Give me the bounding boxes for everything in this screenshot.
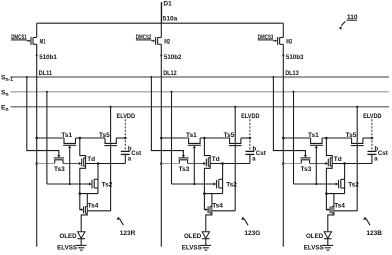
wire scan line Sn (1, 89, 389, 98)
junction DL/Ts1 (35, 137, 38, 140)
transistor Ts2 (341, 164, 360, 194)
transistor Ts5 (99, 132, 117, 146)
capacitor Cst (121, 146, 141, 163)
transistor Ts4 (326, 194, 345, 232)
label 110 with arrow (339, 14, 358, 30)
svg-text:Ts1: Ts1 (308, 132, 319, 139)
label DMCS3 (258, 34, 274, 41)
svg-text:Ts1: Ts1 (61, 132, 72, 139)
wire Ts5 gate from En (234, 106, 237, 146)
label DMCS1 (11, 34, 27, 41)
label 123G pixel with arrow (241, 217, 260, 237)
svg-text:Ts4: Ts4 (212, 203, 223, 210)
transistor Ts1 (308, 132, 323, 184)
svg-text:M3: M3 (286, 39, 292, 46)
svg-text:M1: M1 (40, 39, 46, 46)
wire Ts5 gate from En (109, 106, 112, 146)
svg-text:Ts2: Ts2 (348, 182, 359, 189)
transistor Ts2 (94, 164, 113, 194)
wire Ts1/Ts2 gates from Sn (171, 91, 217, 189)
wire Td/Ts2 source node (325, 192, 345, 195)
wire Ts3 gate from Sn-1 (150, 76, 185, 158)
junction DL/Ts1 (282, 137, 285, 140)
svg-text:M2: M2 (164, 39, 170, 46)
wire DL to Ts1 (161, 137, 188, 139)
svg-text:Ts3: Ts3 (179, 166, 190, 173)
diode OLED (184, 232, 210, 246)
svg-text:510b3: 510b3 (286, 54, 304, 61)
svg-text:510b1: 510b1 (39, 54, 57, 61)
wire Td/Ts2 source node (79, 192, 99, 195)
diode OLED (59, 232, 85, 246)
svg-text:510b2: 510b2 (164, 54, 182, 61)
svg-text:ELVSS: ELVSS (304, 245, 324, 252)
transistor Ts3 (300, 158, 311, 173)
wire Ts4 to Ts5 gate (87, 210, 110, 212)
transistor M3 demux switch (273, 23, 292, 45)
wire scan line Sn-1 (1, 75, 389, 84)
svg-text:ELVSS: ELVSS (57, 245, 77, 252)
wire Ts5 gate to Ts4 (234, 146, 236, 211)
wire Ts5 to ELVDD (116, 137, 126, 140)
svg-text:Td: Td (212, 156, 220, 163)
ground ELVSS (304, 245, 333, 252)
svg-text:ELVDD: ELVDD (363, 113, 382, 120)
wire Ts5 to ELVDD (363, 137, 373, 140)
svg-text:OLED: OLED (306, 233, 324, 240)
wire Ts5 gate from En (356, 106, 359, 146)
label DMCS2 (136, 34, 152, 41)
junction DL/Ts1 (160, 137, 163, 140)
svg-text:ELVDD: ELVDD (241, 113, 260, 120)
wire node a to Td (86, 162, 126, 165)
svg-text:510a: 510a (163, 16, 178, 23)
wire Ts4 to Ts5 gate (334, 210, 357, 212)
svg-text:Cst: Cst (378, 150, 388, 157)
junction DL/Ts3 (35, 162, 38, 165)
svg-text:Cst: Cst (256, 150, 266, 157)
transistor Ts5 (346, 132, 364, 146)
wire DL12 data line (160, 44, 182, 247)
wire DL13 data line (282, 44, 304, 247)
svg-text:123G: 123G (244, 230, 260, 237)
wire DL11 data line (36, 44, 58, 247)
wire node a to Td (210, 162, 250, 165)
svg-text:Ts1: Ts1 (186, 132, 197, 139)
wire Td/Ts2 source node (203, 192, 223, 195)
wire DL to Ts1 (37, 137, 64, 139)
diode OLED (306, 232, 332, 246)
svg-text:Td: Td (334, 156, 342, 163)
svg-text:Cst: Cst (131, 150, 141, 157)
wire DL to Ts3 (161, 163, 179, 165)
transistor Td drive (326, 138, 341, 194)
svg-text:ELVSS: ELVSS (182, 245, 202, 252)
svg-text:Ts5: Ts5 (99, 132, 110, 139)
svg-text:OLED: OLED (184, 233, 202, 240)
transistor Ts1 (61, 132, 76, 184)
transistor Ts1 (186, 132, 201, 184)
wire Ts5 to ELVDD (241, 137, 251, 140)
svg-text:Ts3: Ts3 (54, 166, 65, 173)
svg-text:123B: 123B (366, 230, 382, 237)
wire Ts5 gate to Ts4 (110, 146, 112, 211)
transistor M1 demux switch (27, 23, 46, 45)
svg-text:123R: 123R (120, 230, 136, 237)
wire Ts3 to Td gate (63, 159, 82, 167)
wire Ts1-Ts5 node (322, 137, 352, 140)
transistor Ts5 (224, 132, 242, 146)
wire node a to Td (332, 162, 372, 165)
wire Ts1-Ts5 node (200, 137, 230, 140)
wire DL to Ts3 (37, 163, 55, 165)
transistor Ts3 (54, 158, 65, 173)
wire Ts1/Ts2 gates from Sn (46, 91, 92, 189)
transistor Ts4 (80, 194, 99, 232)
junction DL/Ts3 (282, 162, 285, 165)
svg-text:ELVDD: ELVDD (117, 113, 136, 120)
wire Ts4 to Ts5 gate (212, 210, 235, 212)
label 123B pixel with arrow (363, 217, 382, 237)
transistor Td drive (204, 138, 219, 194)
svg-text:Ts5: Ts5 (346, 132, 357, 139)
wire DL to Ts1 (283, 137, 310, 139)
wire Ts5 gate to Ts4 (356, 146, 358, 211)
wire Ts3 gate from Sn-1 (272, 76, 307, 158)
svg-text:Ts4: Ts4 (334, 203, 345, 210)
wire 510a horizontal data bus (37, 16, 284, 24)
junction DL/Ts3 (160, 162, 163, 165)
transistor Ts4 (204, 194, 223, 232)
svg-text:OLED: OLED (59, 233, 77, 240)
svg-text:Ts2: Ts2 (226, 182, 237, 189)
wire Ts1-Ts5 node (76, 137, 106, 140)
svg-text:Td: Td (87, 156, 95, 163)
wire Ts3 to Td gate (310, 159, 329, 167)
ground ELVSS (57, 245, 86, 252)
wire emission line En (1, 104, 389, 113)
svg-text:Ts2: Ts2 (102, 182, 113, 189)
power ELVDD (241, 113, 260, 152)
capacitor Cst (367, 146, 387, 163)
svg-text:Ts5: Ts5 (224, 132, 235, 139)
transistor Ts2 (219, 164, 238, 194)
transistor Td drive (80, 138, 95, 194)
power ELVDD (363, 113, 382, 152)
transistor M2 demux switch (151, 2, 170, 45)
wire Ts3 to Td gate (188, 159, 207, 167)
wire Ts1/Ts2 gates from Sn (293, 91, 339, 189)
svg-text:DL12: DL12 (163, 70, 177, 77)
svg-text:Ts4: Ts4 (88, 203, 99, 210)
svg-text:D1: D1 (163, 0, 172, 7)
ground ELVSS (182, 245, 211, 252)
transistor Ts3 (178, 158, 189, 173)
svg-text:Ts3: Ts3 (301, 166, 312, 173)
wire Ts3 gate from Sn-1 (26, 76, 61, 158)
label 123R pixel with arrow (117, 217, 136, 237)
svg-text:DL13: DL13 (285, 70, 299, 77)
capacitor Cst (245, 146, 265, 163)
wire DL to Ts3 (283, 163, 301, 165)
power ELVDD (117, 113, 136, 152)
node D1 feed line (162, 0, 172, 23)
svg-text:DL11: DL11 (39, 70, 53, 77)
